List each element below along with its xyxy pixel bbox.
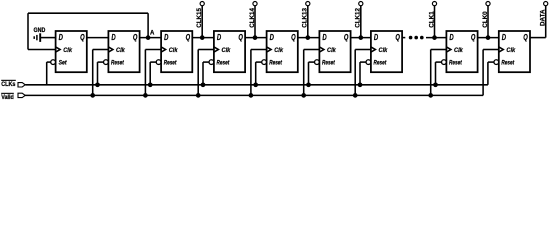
svg-text:Clk: Clk bbox=[116, 47, 125, 54]
svg-text:Reset: Reset bbox=[217, 59, 231, 66]
svg-text:D: D bbox=[449, 33, 453, 42]
svg-text:D: D bbox=[111, 33, 115, 42]
svg-text:Reset: Reset bbox=[111, 59, 125, 66]
svg-text:D: D bbox=[270, 33, 274, 42]
svg-text:DATA: DATA bbox=[540, 9, 547, 26]
svg-text:Clk: Clk bbox=[63, 47, 72, 54]
svg-text:D: D bbox=[164, 33, 168, 42]
svg-text:Reset: Reset bbox=[322, 59, 336, 66]
svg-text:Reset: Reset bbox=[501, 59, 515, 66]
svg-text:D: D bbox=[322, 33, 326, 42]
svg-text:Clk: Clk bbox=[327, 47, 336, 54]
svg-text:Clk: Clk bbox=[454, 47, 463, 54]
svg-text:Clk: Clk bbox=[222, 47, 231, 54]
svg-text:Q: Q bbox=[291, 33, 296, 42]
svg-text:CLK13: CLK13 bbox=[302, 8, 309, 28]
svg-text:CLK14: CLK14 bbox=[249, 8, 256, 28]
svg-text:D: D bbox=[502, 33, 506, 42]
svg-text:Clk: Clk bbox=[506, 47, 515, 54]
svg-text:Reset: Reset bbox=[374, 59, 388, 66]
svg-text:Valid: Valid bbox=[1, 94, 14, 101]
svg-text:Q: Q bbox=[133, 33, 138, 42]
svg-text:Set: Set bbox=[59, 59, 68, 66]
svg-text:CLK0: CLK0 bbox=[482, 11, 489, 28]
svg-text:CLK1: CLK1 bbox=[428, 11, 435, 28]
svg-text:D: D bbox=[59, 33, 63, 42]
svg-text:D: D bbox=[217, 33, 221, 42]
svg-text:Q: Q bbox=[395, 33, 400, 42]
svg-text:Q: Q bbox=[471, 33, 476, 42]
svg-text:CLKs: CLKs bbox=[1, 81, 16, 88]
svg-text:Q: Q bbox=[238, 33, 243, 42]
svg-text:Reset: Reset bbox=[269, 59, 283, 66]
svg-text:Reset: Reset bbox=[449, 59, 463, 66]
svg-text:CLK15: CLK15 bbox=[196, 8, 203, 28]
svg-text:Clk: Clk bbox=[169, 47, 178, 54]
svg-text:D: D bbox=[374, 33, 378, 42]
svg-text:Clk: Clk bbox=[379, 47, 388, 54]
svg-text:A: A bbox=[150, 31, 155, 37]
svg-text:Clk: Clk bbox=[274, 47, 283, 54]
svg-text:Reset: Reset bbox=[164, 59, 178, 66]
svg-text:Q: Q bbox=[523, 33, 528, 42]
svg-text:CLK12: CLK12 bbox=[355, 8, 362, 28]
svg-text:GND: GND bbox=[34, 27, 46, 34]
svg-text:Q: Q bbox=[344, 33, 349, 42]
svg-text:Q: Q bbox=[186, 33, 191, 42]
svg-text:Q: Q bbox=[80, 33, 85, 42]
